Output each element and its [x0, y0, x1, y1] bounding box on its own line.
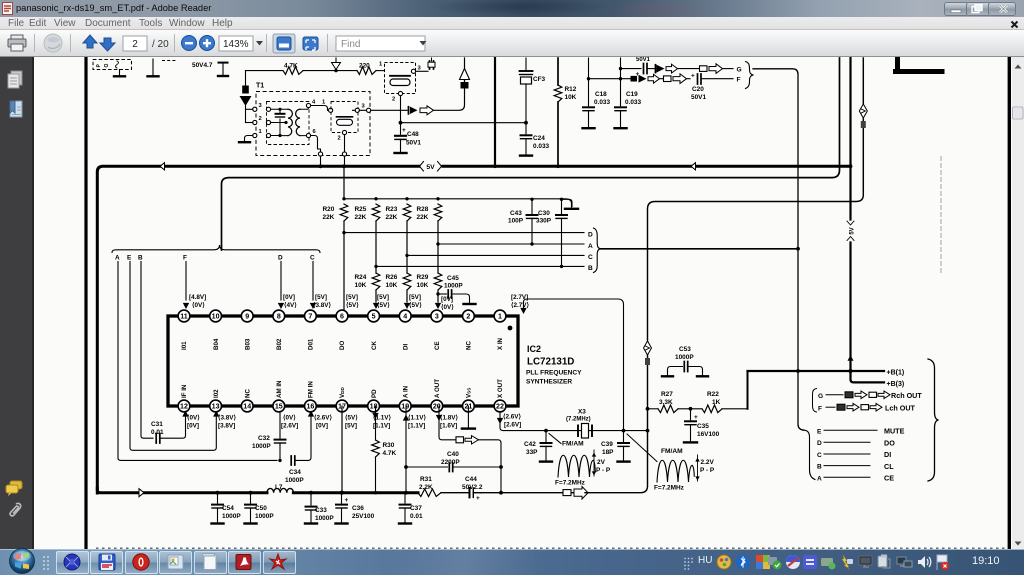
icon5: notepad: [204, 555, 216, 570]
svg-text:B: B: [138, 255, 143, 262]
ceramic filter pin3: [411, 69, 415, 73]
globe (disabled) icon: [44, 34, 62, 52]
svg-text:2.2K: 2.2K: [419, 484, 433, 491]
G row diode solid: [655, 65, 657, 73]
svg-text:16V100: 16V100: [697, 431, 720, 438]
svg-text:DO: DO: [884, 438, 895, 447]
junction dot bus3-R27: [646, 407, 650, 411]
IC2 bottom pins 12..22: [178, 400, 190, 412]
svg-text:1: 1: [259, 129, 263, 135]
svg-text:F: F: [183, 255, 187, 262]
svg-text:CE: CE: [434, 341, 441, 350]
svg-text:1000P: 1000P: [252, 443, 271, 450]
svg-text:A: A: [588, 243, 593, 250]
wire pin22 X OUT down: [500, 412, 648, 431]
wire arrow on 5V bus: [160, 163, 165, 170]
crystal X3 7.2MHz: [578, 426, 592, 437]
svg-text:3: 3: [362, 104, 366, 110]
svg-text:C53: C53: [679, 346, 691, 353]
resistor R22 1K: [702, 405, 722, 413]
svg-text:13: 13: [212, 403, 220, 411]
svg-text:1K: 1K: [712, 399, 721, 406]
svg-text:C45: C45: [447, 275, 459, 282]
svg-text:50V1: 50V1: [636, 57, 651, 63]
wire R20 feed from 5V bus: [343, 166, 345, 199]
svg-text:A: A: [817, 475, 822, 482]
svg-text:IF IN: IF IN: [181, 384, 188, 398]
capacitor C33 1000P: [310, 493, 312, 505]
svg-text:[2.6V]: [2.6V]: [504, 422, 521, 429]
wire D to pin8: [280, 262, 282, 301]
T1 filter pin3 out: [355, 108, 359, 112]
svg-text:Lch OUT: Lch OUT: [885, 403, 916, 412]
svg-text:2: 2: [338, 136, 341, 142]
svg-text:1000P: 1000P: [675, 354, 694, 361]
svg-text:C50: C50: [255, 505, 267, 512]
svg-text:D: D: [588, 231, 593, 238]
T1 pin1 left: [253, 133, 257, 137]
bracket AEBFDC: [112, 245, 320, 253]
capacitor C54 1000P: [217, 493, 219, 503]
svg-text:C34: C34: [289, 469, 301, 476]
svg-text:B04: B04: [213, 338, 220, 350]
svg-text:0.033: 0.033: [594, 99, 610, 106]
svg-text:1000P: 1000P: [444, 283, 463, 290]
junction dot 5V end: [849, 164, 853, 168]
bus line 2 (serial data): [222, 58, 840, 250]
svg-text:[5V]: [5V]: [409, 294, 421, 301]
cut-off content at page bottom edge: [96, 547, 1006, 549]
junction dot bus3-crystal: [646, 429, 650, 433]
inductor L7: [267, 488, 293, 492]
wire 5V vertical rail: [851, 58, 885, 382]
icon4: photo viewer: [168, 555, 183, 569]
svg-text:C33: C33: [315, 507, 327, 514]
svg-text:ρ: ρ: [95, 64, 101, 68]
svg-text:PLL FREQUENCY: PLL FREQUENCY: [526, 370, 582, 377]
antenna feed arrow: [335, 58, 337, 63]
svg-text:O: O: [104, 64, 110, 68]
wire resistor tops: [344, 199, 572, 207]
wire pin3 column: [437, 221, 439, 273]
svg-text:⟨4V⟩: ⟨4V⟩: [284, 302, 297, 309]
svg-text:1: 1: [379, 62, 383, 68]
capacitor C34 1000P: [284, 459, 290, 461]
wire pin5 column: [375, 221, 377, 273]
svg-text:50V4.7: 50V4.7: [192, 62, 213, 69]
svg-text:DI: DI: [884, 450, 891, 459]
ceramic filter dashed box: [385, 63, 416, 94]
svg-text:2: 2: [259, 116, 262, 122]
svg-text:MUTE: MUTE: [884, 427, 905, 436]
svg-text:VSS: VSS: [466, 388, 473, 398]
junction dot C39: [622, 429, 626, 433]
svg-text:C18: C18: [595, 91, 607, 98]
svg-text:R24: R24: [355, 274, 367, 281]
svg-text:15: 15: [275, 403, 283, 411]
svg-text:16: 16: [306, 403, 314, 411]
svg-text:6: 6: [340, 313, 344, 321]
svg-text:C42: C42: [524, 441, 536, 448]
svg-text:R30: R30: [383, 442, 395, 449]
T1 filter pin2: [342, 130, 346, 134]
svg-text:⟨3.8V⟩: ⟨3.8V⟩: [313, 302, 331, 309]
junction dot 5V-R20: [342, 197, 345, 200]
svg-text:[2.6V]: [2.6V]: [281, 423, 298, 430]
svg-text:[5V]: [5V]: [345, 423, 357, 430]
T1 primary pins: [266, 107, 270, 111]
svg-text:A OUT: A OUT: [434, 379, 441, 398]
svg-text:20: 20: [433, 403, 441, 411]
wire +B(1) line: [748, 370, 885, 372]
svg-text:A IN: A IN: [402, 385, 409, 398]
svg-text:C44: C44: [465, 476, 477, 483]
ground hook right of C30: [562, 199, 573, 206]
svg-text:C31: C31: [151, 421, 163, 428]
junction dots on tops wire: [374, 197, 377, 200]
svg-text:12: 12: [180, 403, 188, 411]
svg-text:[4.8V]: [4.8V]: [189, 294, 206, 301]
IC U-IC2 body: [168, 316, 518, 406]
svg-text:10K: 10K: [355, 282, 367, 289]
svg-text:D: D: [278, 255, 283, 262]
svg-text:7: 7: [308, 313, 312, 321]
svg-text:143%: 143%: [223, 39, 249, 50]
icon2: floppy: [99, 554, 115, 570]
svg-text:[1.6V]: [1.6V]: [440, 423, 457, 430]
svg-text:3: 3: [259, 103, 263, 109]
start orb: [8, 547, 36, 575]
icon3: red O: [133, 554, 149, 570]
wire pin4 to filter: [311, 106, 329, 111]
page flag diamond on crystal line: [644, 341, 652, 355]
svg-text:F=7.2MHz: F=7.2MHz: [654, 485, 684, 492]
svg-text:[5V]: [5V]: [315, 294, 327, 301]
T1 primary winding: [280, 108, 290, 110]
svg-text:22K: 22K: [323, 214, 335, 221]
capacitor C35 16V100: [690, 409, 692, 420]
capacitor C45 1000P: [438, 293, 447, 295]
svg-text:B02: B02: [276, 338, 283, 350]
svg-text:A: A: [115, 255, 120, 262]
wire arrow on ground bus: [139, 489, 144, 497]
svg-text:C54: C54: [222, 505, 234, 512]
T1 pin3 left: [253, 107, 257, 111]
pp arrow 2: [697, 455, 699, 481]
wire pin20 A OUT loop: [439, 406, 455, 440]
right big brace: [928, 359, 939, 481]
svg-text:C37: C37: [410, 505, 422, 512]
svg-text:I01: I01: [181, 341, 188, 350]
svg-text:33P: 33P: [526, 449, 538, 456]
svg-text:B: B: [588, 265, 593, 272]
svg-text:1: 1: [498, 313, 502, 321]
page box: [123, 36, 147, 51]
capacitor C32 1000P: [279, 410, 281, 438]
svg-text:1: 1: [322, 100, 326, 106]
wire G/F vertical rail: [753, 69, 804, 430]
connector symbol on bottom line: [563, 490, 571, 496]
ground at resistor tops wire: [565, 208, 578, 210]
svg-text:4: 4: [312, 100, 316, 106]
svg-text:330P: 330P: [536, 218, 552, 225]
T1 pin4: [306, 103, 310, 107]
resistor R27 3.3K: [658, 405, 678, 413]
brace G F output rows: [813, 389, 817, 413]
grip: [42, 555, 50, 570]
svg-text:C35: C35: [697, 423, 709, 430]
wire row B: [376, 265, 584, 267]
svg-text:X3: X3: [578, 409, 586, 416]
svg-text:G: G: [818, 393, 823, 400]
G row connector symbols: [700, 66, 708, 72]
svg-text:X IN: X IN: [497, 337, 504, 350]
svg-text:22: 22: [496, 403, 504, 411]
callout line FM/AM 1: [549, 434, 561, 444]
wire C to pin7: [312, 262, 314, 301]
wire pin17 VDD to ground bus: [341, 406, 343, 493]
T1 primary cap: [271, 109, 286, 135]
fullscreen btn: [303, 37, 318, 50]
svg-text:SYNTHESIZER: SYNTHESIZER: [526, 379, 572, 386]
thick rail x495: [494, 58, 496, 165]
svg-text:2: 2: [392, 97, 395, 103]
svg-text:5: 5: [372, 313, 376, 321]
svg-text:⟨3.8V⟩: ⟨3.8V⟩: [218, 415, 236, 422]
svg-text:+: +: [476, 495, 480, 502]
svg-text:2: 2: [132, 39, 138, 50]
zoom box: [219, 36, 253, 51]
svg-text:R12: R12: [565, 86, 577, 93]
svg-text:22K: 22K: [355, 214, 367, 221]
wire R22 riser: [747, 371, 749, 409]
svg-text:NC: NC: [466, 341, 473, 350]
wire F to pin11: [185, 262, 187, 301]
svg-text:+: +: [694, 414, 698, 421]
svg-text:+B(1): +B(1): [887, 369, 905, 376]
X IN node dot: [508, 326, 513, 331]
svg-text:Rch OUT: Rch OUT: [891, 391, 922, 400]
svg-text:+: +: [345, 497, 349, 504]
svg-text:C: C: [817, 452, 822, 459]
svg-text:[2.7V]: [2.7V]: [511, 294, 528, 301]
svg-text:G: G: [737, 67, 742, 74]
IC2 top pins 11..1: [178, 310, 190, 322]
svg-text:0.01: 0.01: [410, 513, 423, 520]
svg-text:⟨0V⟩: ⟨0V⟩: [283, 415, 296, 422]
svg-text:PD: PD: [371, 389, 378, 398]
svg-text:2.2V: 2.2V: [701, 459, 715, 466]
svg-text:+: +: [691, 73, 695, 80]
resistor R20 22K: [340, 204, 348, 221]
wire corner up to top: [434, 58, 465, 110]
svg-text:100P: 100P: [508, 218, 524, 225]
svg-text:R28: R28: [417, 206, 429, 213]
dashed connector box top left: [93, 60, 132, 70]
svg-text:R23: R23: [386, 206, 398, 213]
svg-text:P - P: P - P: [700, 467, 715, 474]
capacitor C39 18P: [623, 431, 625, 442]
svg-text:14: 14: [243, 403, 251, 411]
T1 IF filter dashed box: [331, 102, 358, 133]
svg-text:50V1: 50V1: [691, 94, 706, 101]
T1 secondary winding: [296, 109, 300, 135]
svg-text:C40: C40: [447, 451, 459, 458]
capacitor C19 0.033: [620, 69, 622, 106]
svg-text:⟨1.8V⟩: ⟨1.8V⟩: [440, 415, 458, 422]
wire C48-CF3 row: [401, 122, 527, 124]
wire A-line to right: [601, 248, 798, 250]
svg-text:1000P: 1000P: [222, 513, 241, 520]
capacitor C31 0.01: [156, 434, 160, 444]
svg-text:C24: C24: [533, 135, 545, 142]
wire row D: [344, 232, 584, 234]
svg-text:FM IN: FM IN: [308, 381, 315, 398]
capacitor C36 25V100: [341, 493, 343, 503]
wire pin4 column: [406, 221, 408, 273]
svg-text:10: 10: [212, 313, 220, 321]
svg-text:NC: NC: [244, 389, 251, 398]
wire E down-left column: [130, 262, 216, 451]
svg-text:DI: DI: [402, 344, 409, 350]
wire pin19 A IN: [405, 406, 407, 493]
T1 pin6: [306, 133, 310, 137]
svg-text:50V2.2: 50V2.2: [462, 484, 483, 491]
svg-text:F=7.2MHz: F=7.2MHz: [555, 480, 585, 487]
wire pin1 X IN loop: [524, 299, 624, 431]
svg-text:[1.1V]: [1.1V]: [408, 423, 425, 430]
resistor R26 10K: [403, 273, 411, 290]
down arrow: [104, 38, 118, 59]
ground bus bottom right of L7: [293, 491, 418, 494]
svg-text:CE: CE: [884, 474, 894, 483]
junction dot 5V-T1b: [342, 164, 346, 168]
dashed remnant top: [162, 60, 176, 62]
svg-text:CL: CL: [884, 462, 894, 471]
svg-text:3.3K: 3.3K: [659, 399, 673, 406]
zoom in: [200, 36, 215, 51]
svg-text:4.7K: 4.7K: [383, 450, 397, 457]
capacitor C24 0.033: [525, 123, 527, 134]
svg-text:CF3: CF3: [533, 76, 546, 83]
junction dot A-line: [796, 247, 800, 251]
svg-text:9: 9: [245, 313, 249, 321]
svg-text:CK: CK: [371, 341, 378, 350]
icon7: red star: [270, 554, 286, 569]
resistor R24 10K: [372, 273, 380, 290]
svg-text:/ 20: / 20: [152, 39, 169, 50]
svg-text:C: C: [310, 255, 315, 262]
svg-text:E: E: [817, 428, 822, 435]
svg-text:22K: 22K: [386, 214, 398, 221]
svg-text:0.033: 0.033: [625, 99, 641, 106]
svg-text:C32: C32: [258, 435, 270, 442]
wire G row: [620, 58, 622, 69]
printer icon: [8, 35, 26, 51]
svg-text:[0V]: [0V]: [316, 423, 328, 430]
svg-text:[5V]: [5V]: [346, 294, 358, 301]
svg-text:F: F: [737, 77, 741, 84]
diode into T1: [245, 71, 247, 86]
svg-text:R27: R27: [661, 391, 673, 398]
svg-text:2V: 2V: [597, 459, 606, 466]
capacitor C53 1000P: [668, 367, 683, 376]
T1 pin2 left: [253, 120, 257, 124]
wire pin21 Vss ground: [467, 406, 469, 427]
ground bus bottom: [97, 488, 267, 493]
svg-text:1000P: 1000P: [255, 513, 274, 520]
svg-text:⟨5V⟩: ⟨5V⟩: [346, 302, 359, 309]
ground stub 2: [152, 59, 154, 75]
junction dot C42: [544, 429, 548, 433]
resistor 4.7K: [283, 67, 303, 75]
svg-text:C: C: [588, 254, 593, 261]
capacitor C50 1000P: [250, 493, 252, 503]
svg-text:⟨5V⟩: ⟨5V⟩: [345, 415, 358, 422]
svg-text:VDD: VDD: [339, 387, 346, 398]
svg-text:10K: 10K: [386, 282, 398, 289]
svg-text:2200P: 2200P: [441, 459, 460, 466]
svg-text:3: 3: [435, 313, 439, 321]
waveform FM/AM 2: [657, 460, 694, 482]
bus line 3 with vertical to crystal: [585, 58, 863, 493]
svg-text:LC72131D: LC72131D: [527, 357, 574, 368]
crystal stub top: [430, 61, 434, 69]
junction dot 5V-T1a: [319, 164, 323, 168]
ceramic filter body: [390, 75, 410, 77]
callout line FM/AM 2: [627, 434, 657, 462]
wire 4.7K row: [246, 70, 284, 72]
svg-text:18P: 18P: [602, 449, 614, 456]
svg-text:R25: R25: [355, 206, 367, 213]
page flag diamond on bus3: [859, 104, 867, 118]
svg-text:L7: L7: [275, 484, 283, 491]
svg-text:(7.2MHz): (7.2MHz): [566, 417, 591, 423]
brace EDCBA rows: [804, 430, 815, 479]
svg-text:D01: D01: [308, 338, 315, 350]
svg-text:[0V]: [0V]: [187, 423, 199, 430]
resistor R30 4.7K: [375, 406, 377, 440]
capacitor C43 100P: [531, 199, 533, 213]
svg-text:⟨0V⟩: ⟨0V⟩: [192, 302, 205, 309]
svg-text:8: 8: [277, 313, 281, 321]
svg-text:X OUT: X OUT: [497, 379, 504, 398]
svg-text:⟨0V⟩: ⟨0V⟩: [441, 304, 454, 311]
svg-text:FM/AM: FM/AM: [661, 448, 683, 455]
svg-text:4.7K: 4.7K: [284, 62, 298, 69]
svg-text:⟨1.1V⟩: ⟨1.1V⟩: [408, 415, 426, 422]
up arrow: [83, 35, 97, 48]
T1 primary dashed box: [267, 102, 310, 145]
resistor R28 22K: [434, 204, 442, 221]
svg-text:0.01: 0.01: [151, 429, 164, 436]
svg-text:19: 19: [401, 403, 409, 411]
pp arrow 1: [593, 450, 595, 476]
svg-text:R31: R31: [420, 476, 432, 483]
wire row A: [439, 243, 584, 245]
svg-text:2: 2: [466, 313, 470, 321]
svg-text:1000P: 1000P: [285, 477, 304, 484]
svg-text:C48: C48: [407, 131, 419, 138]
svg-text:10K: 10K: [565, 94, 577, 101]
wire pin6 column: [343, 221, 345, 310]
svg-text:5V: 5V: [426, 164, 435, 171]
wire pin6 to bottom: [311, 136, 321, 153]
svg-text:D: D: [817, 440, 822, 447]
svg-text:⟨2.6V⟩: ⟨2.6V⟩: [314, 415, 332, 422]
svg-text:FM/AM: FM/AM: [562, 441, 584, 448]
svg-text:[0V]: [0V]: [283, 294, 295, 301]
